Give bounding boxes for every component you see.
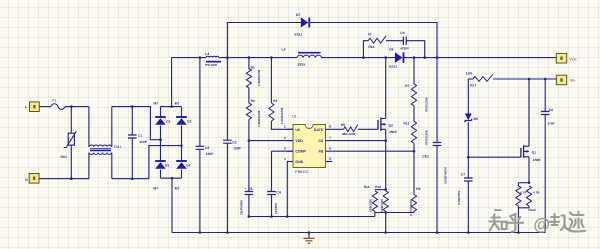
resistor R9 2.4KR/1206 (411, 195, 416, 212)
svg-text:CM1: CM1 (114, 145, 121, 149)
svg-text:2.4KR/1206: 2.4KR/1206 (409, 200, 413, 216)
svg-text:R17: R17 (470, 84, 476, 88)
resistor R16 47 (363, 41, 368, 58)
svg-text:M7: M7 (154, 102, 159, 106)
svg-text:R12: R12 (404, 122, 410, 126)
capacitor C4 104/50V (272, 150, 294, 152)
zener D9 (467, 79, 469, 114)
svg-text:Rse2: Rse2 (529, 208, 537, 212)
svg-text:100UF/400V: 100UF/400V (443, 167, 447, 184)
svg-text:@: @ (534, 215, 551, 234)
bridge bottom rail (161, 177, 182, 179)
resistor R2 1.5MR/1206 (248, 88, 250, 103)
svg-text:Rse1: Rse1 (495, 208, 503, 212)
svg-text:22UF/400V: 22UF/400V (240, 200, 244, 215)
svg-text:M7: M7 (175, 102, 180, 106)
svg-text:C3: C3 (232, 141, 236, 145)
svg-text:L3: L3 (282, 48, 286, 52)
wire N to bridge lower AC feed (112, 178, 149, 180)
svg-text:D7: D7 (296, 13, 300, 17)
capacitor C1 X-cap (131, 107, 133, 135)
resistor R1 1.5MR/1206 (248, 58, 250, 70)
svg-text:M7: M7 (175, 186, 180, 190)
resistor R17 10R (468, 78, 473, 80)
pin 2 VDD (287, 140, 293, 142)
resistor R12 470K/1206 (413, 106, 415, 121)
common-mode choke CM1 (88, 107, 90, 147)
capacitor C7 4.7NF/50V (467, 157, 469, 178)
capacitor C9 472PF (386, 40, 403, 42)
capacitor C5 22UF/400V (248, 141, 250, 192)
wire DC- drop to bottom bus (171, 178, 173, 232)
svg-text:D2: D2 (187, 120, 191, 124)
diode D3 (bridge, M7) (155, 160, 166, 162)
diode D1 (bridge, M7) (160, 107, 162, 117)
pin 5 (326, 161, 333, 163)
wire CS (332, 140, 385, 142)
svg-text:1.5MR/1206: 1.5MR/1206 (257, 69, 261, 86)
resistor Rse2 4.7R (526, 186, 531, 206)
svg-text:68R-1206: 68R-1206 (342, 132, 356, 136)
svg-text:C2: C2 (205, 146, 209, 150)
svg-text:10R: 10R (466, 72, 473, 76)
wire Q1 source (528, 157, 530, 183)
fuse F1 (51, 104, 65, 110)
wire DC+ rail (172, 57, 206, 59)
resistor R3 1.5MR/1206 (270, 58, 272, 103)
svg-text:47: 47 (368, 32, 372, 36)
svg-text:PN8112: PN8112 (295, 170, 308, 174)
svg-text:472PF: 472PF (400, 46, 409, 50)
svg-text:Vo-: Vo- (570, 79, 576, 83)
terminal J2 (N input) (29, 174, 39, 184)
wire R3 to UV pin (271, 121, 293, 129)
svg-text:8: 8 (329, 125, 331, 129)
resistor R7 470K/1206 (413, 58, 415, 84)
diode D4 (bridge, M7) (176, 160, 187, 162)
svg-text:4: 4 (284, 157, 286, 161)
pin 7 CS (326, 140, 333, 142)
wire sub-bus tie (374, 213, 376, 217)
svg-text:Q2: Q2 (389, 124, 394, 128)
svg-text:1R8/1206: 1R8/1206 (380, 199, 384, 212)
svg-text:EE19: EE19 (298, 62, 306, 66)
wire ground sub-bus (249, 216, 375, 218)
wire gate node to Q1 (468, 156, 521, 158)
svg-text:GATE: GATE (314, 128, 324, 132)
wire sense node drop to bus (385, 213, 387, 233)
svg-text:CS: CS (318, 139, 324, 143)
op-amp U1 PN8112 body (293, 125, 326, 168)
wire L terminal to fuse (39, 106, 51, 108)
svg-text:1.5MR/1206: 1.5MR/1206 (257, 110, 261, 127)
svg-text:COMP: COMP (295, 150, 306, 154)
wire N terminal to choke (39, 178, 89, 180)
svg-text:CE1: CE1 (422, 155, 429, 159)
svg-text:100P: 100P (233, 146, 241, 150)
pin 1 UV (287, 128, 293, 130)
svg-text:1N60: 1N60 (533, 158, 541, 162)
resistor Rs2 1R8/1206 (384, 188, 387, 191)
wire sense bottoms to bus (518, 206, 529, 233)
watermark strokes (490, 212, 586, 232)
svg-text:UV: UV (295, 128, 301, 132)
svg-text:L: L (25, 105, 27, 109)
capacitor C3 (226, 58, 228, 141)
resistor R5 68R-1206 (332, 128, 343, 130)
wire D9 to gate node (467, 122, 469, 157)
svg-text:C9: C9 (400, 31, 404, 35)
svg-text:R1: R1 (251, 65, 255, 69)
svg-text:D3: D3 (165, 164, 169, 168)
svg-text:C1: C1 (138, 134, 143, 138)
svg-text:3: 3 (284, 147, 286, 151)
svg-text:1R8/1206: 1R8/1206 (368, 199, 372, 212)
svg-text:8*8 1MH: 8*8 1MH (205, 63, 217, 67)
pin 6 FB (326, 150, 333, 152)
wire riser to top clamp wire (227, 23, 302, 58)
varistor RV1 (70, 107, 72, 134)
svg-text:VDD: VDD (295, 139, 303, 143)
wire Q1 drain (528, 79, 530, 146)
terminal VO- (556, 75, 566, 85)
wire V- rail (493, 78, 556, 80)
wire sense resistor bottoms (375, 211, 414, 212)
junction dots on DC+ rail (199, 56, 202, 59)
svg-text:D1: D1 (166, 120, 170, 124)
svg-text:GND: GND (295, 160, 303, 164)
svg-text:4N60: 4N60 (389, 130, 397, 134)
resistor Rs1 1R8/1206 (375, 189, 386, 191)
resistor Rse1 4.7R (518, 182, 529, 184)
svg-text:VO+: VO+ (569, 57, 577, 61)
svg-text:D9: D9 (474, 117, 478, 121)
wire bottom bus (172, 232, 545, 234)
svg-text:104/50V: 104/50V (274, 203, 278, 214)
diode D2 (bridge, M7) (181, 107, 183, 117)
wire Q2 source to CS node (385, 129, 387, 140)
terminal J1 (L input) (30, 102, 40, 112)
svg-text:RV1: RV1 (61, 155, 68, 159)
wire FB node (413, 143, 415, 194)
svg-text:R16: R16 (369, 45, 375, 49)
svg-text:1: 1 (284, 125, 286, 129)
pin 8 GATE (326, 128, 333, 130)
capacitor C2 (199, 58, 201, 147)
svg-text:Rs2: Rs2 (375, 185, 381, 189)
svg-text:470K/1206: 470K/1206 (424, 130, 428, 145)
svg-text:M7: M7 (154, 186, 159, 190)
svg-text:7: 7 (329, 136, 331, 140)
wire GND pin to ground bus (286, 162, 288, 217)
diode D7 ES1J (308, 18, 310, 28)
wire D7 cathode to CE1 top (309, 23, 437, 58)
wire R2 to VDD node (248, 120, 250, 141)
terminal VO+ (556, 54, 566, 64)
inductor L4 (206, 56, 219, 57)
wire L fuse to choke (65, 106, 89, 108)
svg-text:N: N (25, 178, 28, 182)
svg-text:Rs1: Rs1 (364, 185, 370, 189)
svg-text:C4: C4 (276, 190, 280, 194)
svg-text:R7: R7 (405, 84, 409, 88)
transistor Q2 4N60 (377, 120, 379, 129)
svg-text:475P: 475P (548, 122, 555, 126)
svg-text:2: 2 (284, 136, 286, 140)
svg-text:R5: R5 (341, 123, 345, 127)
svg-text:C7: C7 (461, 172, 465, 176)
wire Q2 drain to rail (385, 58, 387, 119)
svg-text:R3: R3 (273, 99, 277, 103)
node DC+ takeoff (170, 105, 173, 108)
svg-text:+: + (436, 138, 439, 142)
svg-text:6: 6 (329, 147, 331, 151)
capacitor CE1 100UF/400V (436, 58, 438, 143)
svg-text:4 7R: 4 7R (533, 190, 540, 194)
svg-text:R9: R9 (416, 187, 420, 191)
svg-text:R2: R2 (251, 99, 255, 103)
svg-text:L4: L4 (205, 52, 209, 56)
svg-text:4.7NF/50V: 4.7NF/50V (457, 191, 461, 205)
wire FB to pin 6 (332, 150, 414, 152)
svg-text:100P: 100P (139, 140, 148, 144)
svg-text:ES1J: ES1J (295, 32, 303, 36)
svg-text:F1: F1 (53, 98, 57, 102)
wire L to bridge upper AC feed (112, 107, 161, 140)
svg-text:FB: FB (319, 150, 324, 154)
svg-text:C5: C5 (248, 187, 252, 191)
ground (308, 231, 311, 234)
svg-text:U1: U1 (292, 114, 297, 118)
diode D8 ES1J (403, 52, 405, 63)
pin 3 COMP (287, 150, 293, 152)
svg-text:D4: D4 (186, 164, 190, 168)
wire Q2 source to sense resistors (385, 141, 387, 190)
inductor L3 EE19 (298, 52, 321, 54)
wire VDD (249, 140, 293, 142)
svg-text:5: 5 (329, 157, 331, 161)
transistor Q1 1N60 (520, 148, 522, 157)
pin 4 GND (287, 161, 293, 163)
svg-text:D8: D8 (389, 48, 393, 52)
svg-text:1.5MR/1206: 1.5MR/1206 (280, 107, 284, 124)
capacitor C8 475P (544, 79, 546, 112)
svg-text:470K/1206: 470K/1206 (424, 97, 428, 112)
bridge top rail (161, 106, 182, 108)
svg-text:100P: 100P (206, 152, 214, 156)
svg-text:ES1J: ES1J (389, 65, 397, 69)
svg-text:Q1: Q1 (532, 150, 537, 154)
svg-text:C8: C8 (549, 108, 553, 112)
svg-text:+: + (244, 187, 247, 191)
